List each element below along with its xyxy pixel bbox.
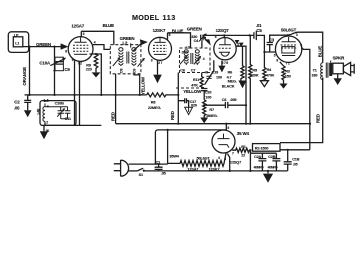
- svg-text:.05: .05: [293, 162, 298, 166]
- wire BLUE 12SA7 plate to IF1: [81, 31, 114, 44]
- wire IF2 secondary return riser: [177, 73, 179, 124]
- svg-text:L4B: L4B: [37, 108, 41, 114]
- resistor R8: [147, 93, 179, 97]
- AC plug: [114, 164, 121, 171]
- svg-text:L4: L4: [44, 98, 50, 103]
- svg-text:30: 30: [46, 129, 50, 133]
- svg-text:C7: C7: [191, 69, 196, 73]
- IF2 core: [191, 53, 193, 64]
- svg-text:7 2: 7 2: [78, 61, 82, 65]
- pin 3 plate stem: [80, 31, 82, 37]
- svg-text:35 W4: 35 W4: [237, 131, 250, 136]
- IF transformer T2 dashed box: [110, 45, 141, 74]
- trimmer capacitor C10A: [54, 47, 56, 95]
- wire RED IF1 primary return to B+ rail: [115, 74, 117, 124]
- IF2 trimmer arrows: [180, 56, 187, 64]
- ground arrow power supply: [267, 171, 269, 174]
- svg-text:22: 22: [241, 153, 245, 157]
- resistor R5: [249, 35, 252, 123]
- output transformer T1: [321, 63, 323, 80]
- pin 4 wire to IF1: [93, 45, 110, 50]
- resistor R1: [232, 148, 250, 152]
- svg-text:GREEN: GREEN: [187, 27, 202, 32]
- resistor R2 1500 box: [253, 144, 281, 152]
- svg-text:12SQ7: 12SQ7: [216, 28, 230, 33]
- svg-text:R8: R8: [151, 101, 156, 105]
- loop antenna LP outer box: [8, 32, 28, 53]
- diode plate arrows 12SQ7: [235, 40, 240, 44]
- ground arrow below R9: [95, 70, 97, 73]
- svg-text:R1: R1: [241, 145, 246, 149]
- ground arrow below speaker: [337, 74, 339, 79]
- svg-text:S1: S1: [139, 173, 143, 177]
- svg-text:C10B: C10B: [55, 102, 65, 106]
- resistor R6: [241, 46, 244, 80]
- wire B+ from R2: [280, 149, 310, 151]
- svg-text:113: 113: [163, 13, 176, 22]
- svg-text:ORANGE: ORANGE: [22, 67, 27, 86]
- grid arrow into 12SQ7: [204, 37, 207, 41]
- svg-text:12SK7: 12SK7: [209, 167, 220, 171]
- svg-text:YELLOW: YELLOW: [140, 76, 145, 95]
- svg-text:50L6GT: 50L6GT: [197, 156, 211, 160]
- capacitor C17: [178, 98, 188, 107]
- svg-text:C11: C11: [65, 117, 71, 121]
- svg-text:C6: C6: [222, 98, 227, 102]
- svg-text:40MFD: 40MFD: [268, 166, 279, 170]
- wire 50L6GT plate top: [269, 34, 288, 36]
- svg-text:40MFD: 40MFD: [254, 166, 265, 170]
- svg-text:MODEL: MODEL: [132, 13, 160, 22]
- svg-text:2 7: 2 7: [158, 61, 162, 65]
- tube 12SA7: [68, 37, 93, 62]
- svg-text:C2A: C2A: [254, 155, 262, 159]
- antenna coil L1 inner box: [13, 37, 22, 47]
- svg-text:100: 100: [216, 76, 222, 80]
- svg-text:R6: R6: [228, 71, 233, 75]
- resistor R4: [263, 52, 266, 81]
- svg-text:C9: C9: [64, 67, 70, 72]
- IF1 secondary coil: [132, 48, 136, 66]
- tube 50L6GT: [275, 36, 301, 62]
- cathode arrow 12SQ7: [221, 61, 223, 66]
- IF2 primary coil: [184, 50, 188, 65]
- svg-text:L1: L1: [15, 42, 19, 46]
- svg-text:BLUE: BLUE: [172, 29, 184, 34]
- pin 6 stem: [74, 61, 76, 126]
- svg-text:T1: T1: [313, 68, 317, 72]
- wire T1 primary bottom to rectifier output: [280, 78, 323, 143]
- capacitor C2: [27, 95, 29, 100]
- grid arrow into 12SK7: [133, 43, 143, 52]
- capacitor C3: [267, 35, 273, 52]
- wire ORANGE riser: [29, 47, 31, 95]
- volume control R7: [203, 100, 206, 118]
- svg-text:C1B: C1B: [292, 158, 300, 162]
- svg-text:C8: C8: [120, 69, 124, 74]
- svg-text:.05: .05: [161, 171, 166, 175]
- svg-text:SPKR: SPKR: [333, 56, 346, 61]
- svg-text:.05: .05: [14, 105, 20, 110]
- svg-text:HI: HI: [205, 71, 208, 75]
- IF2 shield dashed bottom: [176, 87, 205, 89]
- wire oscillator bus: [25, 94, 147, 96]
- IF1 trimmer arrows: [113, 58, 120, 66]
- svg-text:C5: C5: [256, 28, 262, 33]
- svg-text:020: 020: [191, 103, 197, 107]
- svg-text:22MEG.: 22MEG.: [148, 106, 161, 110]
- wire bottom link to L4: [44, 124, 101, 126]
- svg-text:C6: C6: [180, 69, 185, 73]
- svg-text:47K: 47K: [191, 84, 198, 88]
- svg-text:BLUE: BLUE: [317, 46, 322, 58]
- svg-text:C3: C3: [269, 37, 275, 42]
- capacitor C1: [155, 164, 163, 171]
- capacitor C2B: [272, 153, 280, 171]
- IF1 core: [127, 52, 129, 64]
- svg-text:C10A: C10A: [39, 61, 51, 66]
- svg-text:BLUE: BLUE: [103, 23, 115, 28]
- heater string riser: [167, 130, 169, 164]
- svg-text:.005: .005: [230, 98, 237, 102]
- svg-text:12SA7: 12SA7: [187, 167, 198, 171]
- capacitor C5: [249, 34, 251, 36]
- svg-text:150: 150: [285, 75, 291, 79]
- svg-text:L3: L3: [186, 46, 190, 50]
- svg-text:12SK7: 12SK7: [153, 28, 166, 33]
- svg-text:RED: RED: [316, 114, 321, 123]
- wire 12SA7 osc pin to oscillator bus: [96, 54, 101, 95]
- svg-text:220: 220: [86, 67, 92, 71]
- wire filter cap tops: [250, 152, 276, 154]
- trimmer capacitor C10B: [45, 107, 68, 119]
- svg-text:35W4: 35W4: [169, 155, 179, 159]
- svg-text:.5MEG.: .5MEG.: [206, 114, 218, 118]
- heater loop wire to 35W4 plate: [155, 130, 226, 164]
- coil L4 winding: [43, 103, 45, 123]
- wire B+ rail RED: [116, 123, 310, 125]
- svg-text:C6: C6: [133, 69, 137, 74]
- wire 35W4 heater pin 3 to AC bus: [227, 154, 229, 171]
- resistor R9: [90, 53, 97, 55]
- IF transformer T3 dashed box: [180, 48, 211, 73]
- wire AC bottom with switch: [128, 170, 137, 172]
- pin stems 12SK7 bottom: [157, 60, 159, 74]
- svg-text:7 2: 7 2: [286, 62, 290, 66]
- tube 12SQ7: [214, 38, 236, 60]
- svg-text:L2: L2: [123, 40, 129, 45]
- svg-text:GREEN: GREEN: [36, 42, 51, 47]
- capacitor C2A: [258, 153, 266, 171]
- capacitor C6 .005: [204, 102, 246, 108]
- IF1 primary coil: [119, 48, 123, 66]
- svg-text:50L6GT: 50L6GT: [281, 28, 297, 33]
- capacitor C1B: [284, 150, 292, 171]
- grid arrow into 12SA7: [61, 43, 69, 49]
- svg-text:BLACK: BLACK: [222, 85, 235, 89]
- svg-text:C20: C20: [205, 90, 212, 94]
- svg-text:RED: RED: [170, 111, 175, 120]
- svg-text:RED: RED: [110, 112, 115, 121]
- wire BLUE 12SK7 plate to IF2: [168, 33, 191, 48]
- wire 12SQ7 grid to volume control: [205, 60, 214, 84]
- svg-text:R5: R5: [252, 68, 257, 72]
- svg-text:12SA7: 12SA7: [71, 23, 84, 28]
- wire YELLOW IF1 secondary return: [134, 74, 140, 95]
- tube 12SK7: [149, 37, 172, 60]
- svg-text:R7: R7: [209, 108, 214, 112]
- svg-text:470K: 470K: [266, 73, 275, 77]
- svg-text:5 7 6: 5 7 6: [222, 61, 229, 65]
- pin 2 wire: [236, 46, 246, 124]
- node junction green/C10A: [53, 46, 55, 48]
- wire AC top: [129, 163, 168, 165]
- svg-text:R2-1500: R2-1500: [255, 147, 269, 151]
- pin 5 plate stem to rail: [225, 124, 227, 131]
- node R8 to AVC riser: [177, 94, 179, 96]
- svg-text:R11: R11: [193, 78, 199, 82]
- node junction green/orange: [28, 46, 30, 48]
- wire GREEN antenna to 12SA7 grid: [23, 46, 61, 48]
- oscillator coil L4 box: [40, 101, 76, 126]
- svg-text:C2: C2: [14, 99, 20, 104]
- tube 35W4: [212, 130, 235, 153]
- capacitor C11: [61, 107, 71, 119]
- svg-text:MEG.: MEG.: [228, 80, 237, 84]
- pin 6 stem: [223, 35, 225, 37]
- svg-text:100: 100: [205, 95, 211, 99]
- svg-text:180: 180: [311, 74, 317, 78]
- pin 7 2 stem: [79, 61, 81, 125]
- capacitor C20: [201, 87, 207, 100]
- resistor R11: [200, 73, 203, 88]
- wire 12SQ7 grid top bus: [203, 34, 250, 36]
- heater filament string: [168, 153, 226, 166]
- svg-text:C1: C1: [156, 160, 161, 164]
- ground arrow below C2: [24, 110, 32, 117]
- svg-text:R3: R3: [285, 69, 290, 73]
- return arrow below R4: [260, 81, 268, 87]
- svg-text:220K: 220K: [250, 74, 259, 78]
- wire rectifier cathode riser to AC bus: [249, 150, 251, 171]
- pin 8 plate stem: [167, 33, 169, 40]
- svg-text:YELLOW: YELLOW: [183, 89, 202, 94]
- svg-text:12SQ7: 12SQ7: [230, 161, 241, 165]
- svg-text:GREEN: GREEN: [120, 36, 135, 41]
- cathode ground arrow 12SK7: [153, 75, 162, 84]
- IF2 secondary coil: [195, 50, 199, 65]
- switch S1: [137, 168, 143, 171]
- coil L4 bottom exit and ground arrow: [44, 123, 45, 131]
- svg-text:C2B: C2B: [268, 155, 276, 159]
